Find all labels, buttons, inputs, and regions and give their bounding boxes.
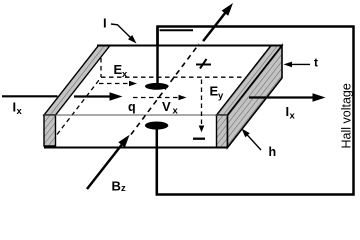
edge: front-top [44,114,228,116]
q drift arrow [74,95,111,97]
I_x right arrow [249,96,314,98]
svg-text:q: q [128,100,136,114]
svg-text:V: V [162,99,171,114]
E_y line (dashed) + arrow down [201,80,203,125]
svg-text:x: x [173,106,179,117]
contact dot lower + stem [145,122,168,130]
svg-text:B: B [112,179,121,194]
minus mark [193,138,205,140]
svg-text:y: y [218,91,224,102]
svg-text:x: x [122,69,128,80]
wire top (Hall voltage loop) [157,27,354,195]
B_z upper solid arrow [203,12,226,41]
svg-text:t: t [314,56,318,70]
contact right: front strip [217,115,228,148]
B_z lower solid arrow [87,143,123,189]
svg-text:x: x [290,111,296,122]
slab top face [44,46,282,116]
I leader arrow [111,24,132,39]
B_z dashed middle segment [131,44,199,135]
hidden edge: left-bottom (dashed) [57,78,101,135]
svg-text:Hall voltage: Hall voltage [340,83,354,148]
edge FTR-BTR over end face [228,46,283,116]
slab front face [44,115,228,148]
svg-text:x: x [17,106,23,117]
slab right end face [228,46,283,148]
edge: back-top [97,45,282,47]
hidden edge: contact back vertical (dashed) [100,58,102,77]
contact right: top strip [217,46,283,116]
wire doubled segment (scan artifact) [160,29,194,31]
t arrow [292,63,310,65]
plus mark (skewed) [196,64,211,66]
svg-text:I: I [103,16,107,31]
contact dot upper + stem [145,83,169,90]
svg-text:z: z [121,183,126,194]
V_x arrow (dashed) [133,97,179,99]
contact left: front strip [44,115,56,146]
I_x left entering line [2,95,58,97]
contact left: top strip [44,46,110,116]
E_x arrow (dashed) [99,83,129,85]
edge: front-bottom [44,146,228,148]
hidden edge: back-bottom (dashed) [101,76,244,78]
svg-text:h: h [269,145,277,159]
h arrow [247,135,261,150]
